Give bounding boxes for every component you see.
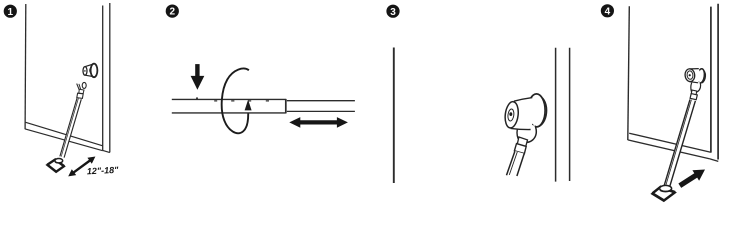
step4 cylinder top line (691, 68, 699, 70)
step1 pole (60, 98, 81, 158)
step2 rotation arrow (222, 69, 249, 134)
step4 cup center dot (689, 74, 691, 76)
step1 pole fork end (77, 82, 87, 98)
step3 right wall line outer (569, 48, 571, 181)
step3 cylinder body (511, 98, 537, 130)
svg-text:3: 3 (390, 7, 396, 18)
step1 door right edge outer (109, 3, 111, 152)
step1 door left edge (24, 4, 27, 129)
step1 foot collar (55, 159, 63, 163)
step4 foot pad outer (652, 187, 675, 201)
svg-text:1: 1 (8, 7, 14, 18)
step badge 2 (166, 5, 179, 18)
step1 wall knob (83, 64, 97, 78)
step4 foot pad inner (652, 186, 675, 200)
step3 right wall line inner (555, 48, 557, 182)
step2 inner tube top line (287, 100, 355, 102)
step2 outer tube top line (172, 98, 286, 100)
step2 tube tick marks (214, 100, 269, 102)
step3 rod end assembly (504, 94, 547, 154)
step4 cup inner ring (687, 71, 694, 80)
step1 door bottom band top line (26, 122, 103, 146)
step4 door bottom band top line (629, 133, 711, 152)
step4 foot collar (660, 185, 672, 191)
step4 collar (690, 94, 697, 100)
step2 outer tube end cap (285, 99, 287, 114)
step3 bracket (517, 124, 536, 143)
step badge 3 (386, 5, 399, 18)
step4 bracket (691, 81, 701, 93)
step4 door left edge (628, 6, 630, 140)
svg-text:4: 4 (605, 6, 611, 17)
step2 extend double arrow (289, 117, 348, 128)
svg-text:2: 2 (170, 7, 176, 18)
step1 foot collar base arc (55, 161, 63, 163)
step4 cylinder bottom line (690, 82, 699, 83)
step1 door bottom band bottom line (25, 129, 103, 151)
step3 cup inner ring (507, 109, 514, 122)
step4 neck (691, 90, 697, 95)
step3 flange thickness arc (537, 94, 547, 126)
step2 rotation arrowhead (245, 100, 252, 111)
step3 cup center dot (509, 112, 512, 116)
step4 pole (664, 99, 696, 189)
step4 cylinder body (690, 69, 702, 83)
step3 rod tube (507, 151, 525, 176)
step4 door right edge inner (710, 7, 712, 153)
step4 push arrow (678, 170, 705, 188)
step badge 4 (601, 4, 614, 17)
step4 flange thickness arc (702, 69, 706, 83)
step4 door bottom band bottom line (628, 140, 710, 159)
step4 rod end assembly (684, 68, 705, 99)
step2 press-down arrow (191, 64, 205, 90)
step3 cup outer ellipse (504, 101, 520, 129)
step1 label 12"-18" (87, 165, 120, 177)
step3 left wall line (393, 48, 395, 184)
step1 foot pad inner (47, 159, 64, 171)
step4 flange ellipse (697, 68, 706, 83)
step3 collar (514, 144, 526, 154)
step4 door right edge outer (717, 4, 719, 160)
step2 outer tube bottom line (172, 112, 286, 114)
step1 door bottom corner diagonal (103, 150, 110, 152)
step badge 1 (4, 5, 17, 18)
step3 cylinder bottom line (511, 128, 531, 129)
step2 inner tube bottom line (287, 110, 355, 112)
step4 foot collar base arc (660, 189, 672, 191)
step3 flange ellipse (528, 94, 545, 127)
svg-text:12"-18": 12"-18" (87, 165, 120, 177)
step1 range double arrow (68, 157, 95, 177)
step2 tube pin dot (196, 97, 198, 99)
step4 cup outer ellipse (684, 68, 695, 82)
step3 neck (517, 137, 527, 147)
step1 door right edge inner (102, 6, 104, 151)
step3 cylinder top line (514, 98, 532, 102)
step4 door bottom corner diagonal (710, 159, 718, 162)
step1 foot pad outer (47, 160, 64, 172)
